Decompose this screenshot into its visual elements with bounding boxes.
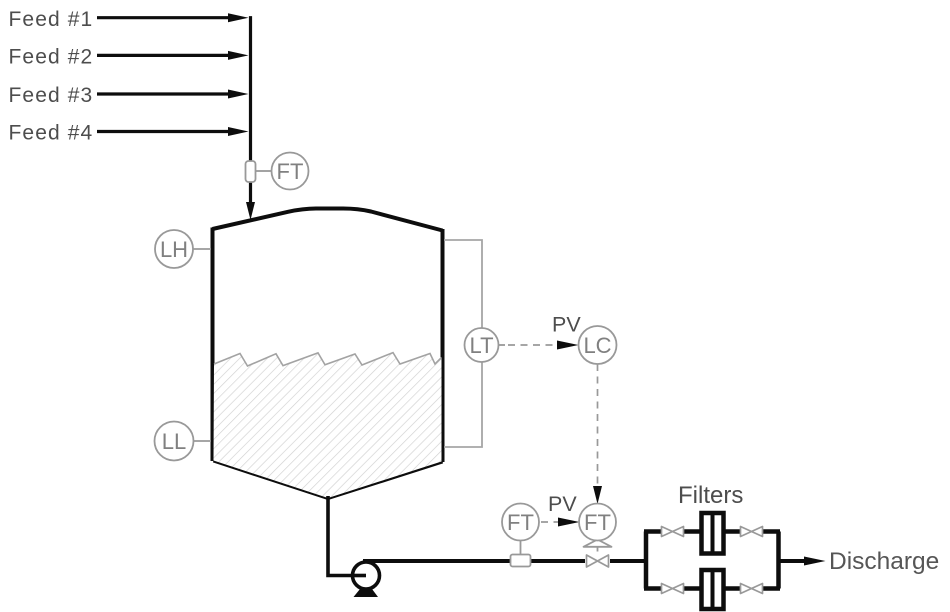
wire pipe (control valve to filters) <box>608 559 648 563</box>
wire feed line 4 <box>97 127 249 136</box>
arrowhead into FT valve <box>593 486 602 504</box>
instrument LH <box>155 230 193 268</box>
wire feed line 3 <box>97 90 249 99</box>
instrument LC <box>579 326 617 364</box>
arrowhead into LC <box>557 341 579 350</box>
arrowhead discharge <box>804 557 826 566</box>
svg-text:PV: PV <box>548 492 577 516</box>
liquid surface zigzag <box>214 353 442 366</box>
filter manifold right header <box>776 532 781 589</box>
wire connector LH <box>193 248 211 250</box>
valve V4 (bottom right) <box>740 582 763 595</box>
filter F1 (top) <box>702 513 724 554</box>
filter manifold left header <box>644 532 649 589</box>
instrument FT (feed) <box>272 153 309 190</box>
instrument LL <box>155 422 194 461</box>
instrument LT <box>465 328 499 362</box>
svg-text:LT: LT <box>469 333 493 358</box>
instrument FT (discharge) <box>502 504 539 541</box>
wire top branch <box>644 529 780 534</box>
valve V2 (top right) <box>740 525 763 538</box>
wire feed header vertical pipe <box>249 16 252 204</box>
tank vessel <box>213 209 443 499</box>
wire discharge pipe (pump to control valve) <box>363 559 587 563</box>
wire LT tail <box>499 344 506 346</box>
svg-text:PV: PV <box>552 313 581 337</box>
wire connector LL <box>194 440 211 442</box>
signal FT to FT dashed <box>541 521 558 523</box>
svg-text:Feed #3: Feed #3 <box>9 84 94 107</box>
level bracket <box>444 240 482 447</box>
signal LT to LC dashed <box>508 344 557 346</box>
filter F2 (bottom) <box>702 570 724 609</box>
svg-text:FT: FT <box>584 510 611 535</box>
svg-text:Filters: Filters <box>678 482 743 509</box>
wire discharge outlet <box>779 559 807 563</box>
svg-text:Feed #2: Feed #2 <box>9 46 94 69</box>
svg-text:FT: FT <box>277 159 304 184</box>
valve V1 (top left) <box>661 525 684 538</box>
wire bottom branch <box>644 586 780 591</box>
wire feed line 2 <box>97 51 249 60</box>
instrument FT (control valve) <box>579 504 616 541</box>
arrowhead into FT valve circle <box>558 518 580 527</box>
svg-text:LC: LC <box>583 333 611 358</box>
wire connector FT discharge <box>520 541 522 555</box>
flow element on feed line <box>246 161 256 182</box>
svg-text:Feed #1: Feed #1 <box>9 8 94 31</box>
svg-text:LH: LH <box>160 237 188 262</box>
valve actuator bonnet <box>584 540 612 547</box>
valve actuator <box>597 547 599 559</box>
svg-text:Feed #4: Feed #4 <box>9 122 94 145</box>
valve V3 (bottom left) <box>661 582 684 595</box>
control valve body <box>585 554 610 568</box>
flow element on discharge line <box>511 555 531 567</box>
pump P-1 <box>352 562 380 597</box>
svg-text:Discharge: Discharge <box>829 548 939 575</box>
liquid hatch fill <box>210 350 445 500</box>
wire tank outlet pipe <box>328 496 366 576</box>
wire feed line 1 <box>97 13 249 22</box>
svg-text:LL: LL <box>162 429 186 454</box>
signal LC to FT valve dashed <box>597 364 599 487</box>
svg-text:FT: FT <box>507 510 534 535</box>
arrow into tank <box>246 202 255 220</box>
wire connector to FT <box>256 170 272 172</box>
